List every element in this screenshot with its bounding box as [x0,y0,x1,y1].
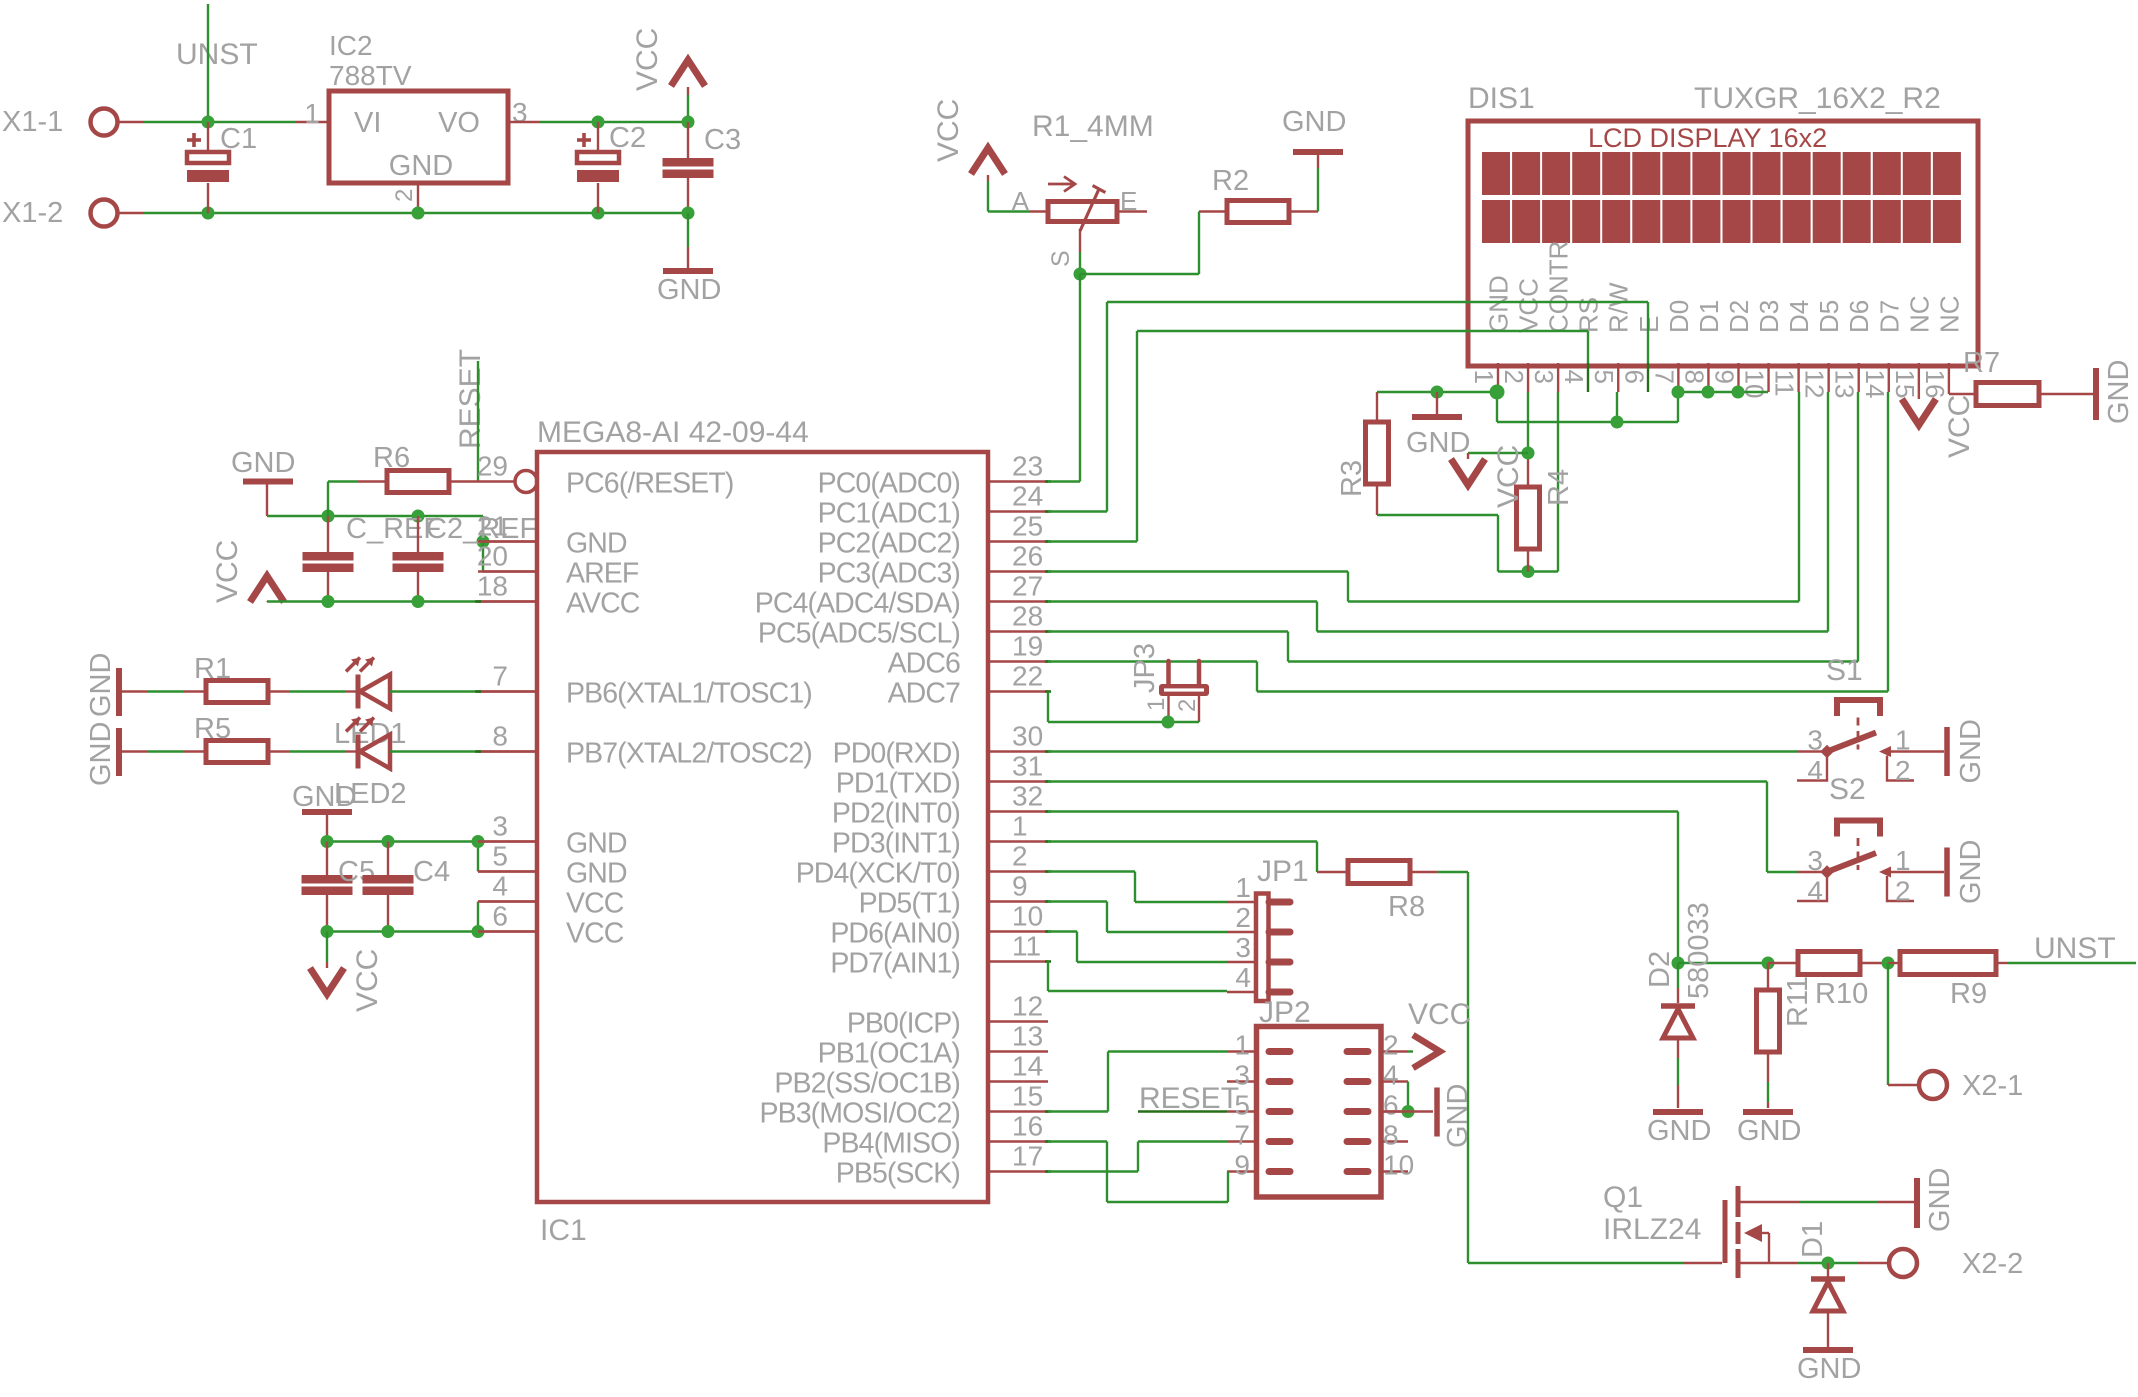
svg-text:9: 9 [1709,370,1739,384]
wire VCC to potentiometer A [988,210,1030,212]
switch S1 top bracket [1837,700,1880,716]
svg-text:RESET: RESET [1139,1082,1239,1115]
switch S1 pin 4 hook [1797,752,1827,781]
svg-text:20: 20 [477,541,508,572]
junction node contrast [1522,565,1535,578]
wire PC4 net to LCD D5 (pin 12) [1048,600,1317,602]
svg-text:PD6(AIN0): PD6(AIN0) [830,918,960,950]
wire PD0 to switch S1 [1048,750,1797,752]
IC1 left pin stubs [478,540,537,542]
svg-text:VO: VO [438,107,480,139]
capacitor C4 [387,842,389,876]
junction node C5 bottom [321,925,334,938]
wire PC5 net to LCD D6 (pin 13) [1048,630,1288,632]
svg-text:R1_4MM: R1_4MM [1032,110,1154,143]
svg-text:5: 5 [492,841,508,872]
svg-text:PD7(AIN1): PD7(AIN1) [830,948,960,980]
wire PD6 to JP1 pin 3 [1048,930,1077,932]
switch S1 pin 1 contact arrow [1879,746,1891,757]
svg-text:X2-1: X2-1 [1962,1070,2023,1102]
svg-text:C4: C4 [413,856,450,888]
junction node at C3 top [682,116,695,129]
svg-text:7: 7 [492,661,508,692]
svg-text:12: 12 [1012,991,1043,1022]
wire R1 to LED1 [268,690,290,692]
svg-text:VCC: VCC [351,949,384,1012]
wire PD5 to JP1 pin 2 [1048,900,1107,902]
svg-text:9: 9 [1234,1150,1250,1181]
svg-text:C3: C3 [704,124,741,156]
svg-text:PC4(ADC4/SDA): PC4(ADC4/SDA) [755,588,960,620]
LCD pin stubs [1497,363,1499,392]
svg-text:1: 1 [1895,845,1911,876]
wire PB5 to JP2 pin 7 (crossover) [1048,1170,1138,1172]
svg-text:4: 4 [1807,876,1823,907]
wire PC0 net from wiper down to pin 23 [1079,274,1081,482]
ground symbol below D1 [1803,1347,1853,1353]
IC1 pin 29 inversion circle [515,471,537,493]
svg-text:X2-2: X2-2 [1962,1248,2023,1280]
svg-text:GND: GND [292,781,356,813]
LCD character cells row 1 [1482,152,1510,195]
svg-text:A: A [1012,186,1030,216]
wire R5 to LED2 [268,750,290,752]
ground symbol at R5 (rotated) [116,728,122,776]
svg-text:3: 3 [1529,370,1559,384]
svg-text:PB2(SS/OC1B): PB2(SS/OC1B) [774,1068,960,1100]
svg-text:Q1: Q1 [1603,1181,1643,1214]
resistor R3 (contrast divider) [1376,392,1378,422]
svg-text:GND: GND [389,150,453,182]
potentiometer wiper with T-bar [1080,189,1099,231]
junction node C2_REF bottom [412,595,425,608]
transistor Q1 channel dashes [1736,1186,1741,1217]
svg-text:VCC: VCC [566,918,624,950]
svg-text:PC1(ADC1): PC1(ADC1) [818,498,960,530]
wire PD1 to switch S2 [1048,780,1767,782]
svg-text:CONTR: CONTR [1544,241,1574,333]
svg-text:788TV: 788TV [329,60,412,91]
LCD pin 15 stub with VCC down arrow [1918,363,1920,399]
svg-text:GND: GND [85,722,117,786]
svg-text:ADC6: ADC6 [888,648,960,680]
svg-text:R4: R4 [1543,469,1575,506]
switch S2 pin 1 contact arrow [1879,867,1891,878]
svg-text:9: 9 [1012,871,1028,902]
svg-text:4: 4 [1559,370,1589,384]
resistor R9 [1888,962,1900,964]
svg-text:VCC: VCC [1514,278,1544,333]
switch S2 lever [1827,853,1876,872]
svg-text:GND: GND [657,274,721,306]
svg-text:GND: GND [566,828,627,860]
junction node C_REF top [322,510,335,523]
svg-text:12: 12 [1800,370,1830,399]
wire R6 to PC6 pin 29 [478,480,514,482]
wire PC2 net to LCD RS (pin 4) [1048,540,1137,542]
svg-text:R2: R2 [1212,165,1249,197]
capacitor C_REF [327,516,329,552]
wire GND stub down to AREF cap rail [266,482,268,517]
svg-text:VCC: VCC [211,540,244,603]
ground symbol at R1 (rotated) [116,668,122,716]
svg-text:GND: GND [2103,360,2135,424]
wire UNST vertical [207,4,209,122]
svg-text:TUXGR_16X2_R2: TUXGR_16X2_R2 [1694,82,1941,115]
svg-text:D1: D1 [1694,300,1724,333]
junction node at C3 bottom [682,207,695,220]
switch S2 pin 3 [1797,871,1827,873]
switch S1 actuator dashed link [1857,718,1860,750]
wire LCD CONTR (pin 3) down [1557,392,1559,572]
svg-text:D4: D4 [1784,300,1814,333]
svg-text:24: 24 [1012,481,1043,512]
wire node to X2-1 [1887,963,1889,1085]
svg-text:R6: R6 [373,442,410,474]
capacitor C2_REF [417,516,419,552]
svg-text:S1: S1 [1826,654,1863,687]
svg-text:32: 32 [1012,781,1043,812]
svg-text:GND: GND [566,528,627,560]
svg-text:GND: GND [1955,719,1987,783]
LCD pin 16 stub to R7 [1948,363,1950,394]
resistor R6 [328,480,358,482]
svg-text:R8: R8 [1388,891,1425,923]
transistor Q1 gate [1723,1200,1728,1263]
svg-text:1: 1 [1143,698,1170,711]
svg-text:PB4(MISO): PB4(MISO) [822,1128,960,1160]
svg-text:13: 13 [1830,370,1860,399]
svg-text:2: 2 [1895,755,1911,786]
svg-text:6: 6 [1383,1090,1399,1121]
svg-text:2: 2 [1895,876,1911,907]
wire D2 node to R10 [1678,962,1768,964]
svg-text:19: 19 [1012,631,1043,662]
svg-text:VCC: VCC [932,99,965,162]
svg-text:1: 1 [304,98,320,129]
svg-text:8: 8 [1679,370,1709,384]
svg-text:NC: NC [1934,295,1964,333]
svg-text:4: 4 [492,871,508,902]
resistor R4 [1527,453,1529,487]
svg-text:PC3(ADC3): PC3(ADC3) [818,558,960,590]
JP2 right pins [1379,1050,1408,1052]
wire LED2 to PB7 pin 8 [390,750,478,752]
svg-text:11: 11 [1770,370,1800,397]
junction node at R11 top [1762,957,1775,970]
svg-text:26: 26 [1012,541,1043,572]
IC1 right pin stubs [988,480,1048,482]
svg-text:VCC: VCC [1408,998,1471,1031]
svg-text:GND: GND [231,447,295,479]
svg-text:10: 10 [1383,1150,1414,1181]
junction node C4 top [382,835,395,848]
svg-text:4: 4 [1383,1060,1399,1091]
resistor R8 [1317,871,1348,873]
ground symbol at S2 [1944,848,1950,897]
junction node at C1 bottom [202,207,215,220]
wire IC2 VO to VCC node [508,121,540,123]
svg-text:3: 3 [1235,932,1251,963]
LED LED2 [356,735,361,769]
ground symbol below D2 [1653,1109,1703,1115]
wire RESET to JP2 pin 5 [1138,1110,1227,1112]
wire ADC7 to JP3 [1047,692,1049,723]
svg-text:D6: D6 [1844,300,1874,333]
transistor Q1 source wire to X2-2 [1740,1262,1797,1264]
junction node LCD pin 1 [1490,385,1505,400]
svg-text:17: 17 [1012,1141,1043,1172]
ground symbol below C3 [663,268,713,274]
svg-text:15: 15 [1890,370,1920,399]
svg-text:PD2(INT0): PD2(INT0) [832,798,960,830]
svg-text:GND: GND [1924,1168,1956,1232]
svg-text:1: 1 [1469,370,1499,384]
junction node C2_REF top [412,510,425,523]
svg-text:JP1: JP1 [1257,855,1309,888]
wire RESET vertical to pin 29 [477,361,479,482]
wire-pin junction ticks (right) [1045,480,1051,483]
resistor R10 [1768,962,1798,964]
ground symbol at JP2 pin 6 [1407,1082,1409,1112]
svg-text:2: 2 [1012,841,1028,872]
wire PC1 net to LCD E (pin 6) [1048,510,1107,512]
svg-text:14: 14 [1012,1051,1043,1082]
svg-text:GND: GND [1647,1115,1711,1147]
wire PD4 to JP1 pin 1 [1048,870,1135,872]
wire C5/C4 bottom rail to VCC pins 4 and 6 [327,930,478,932]
microcontroller IC1 MEGA8-AI body [537,452,988,1202]
LED LED1 [356,675,361,709]
svg-text:PB0(ICP): PB0(ICP) [847,1008,960,1040]
ground symbol at Q1 drain (rotated) [1914,1178,1920,1228]
svg-text:16: 16 [1012,1111,1043,1142]
svg-text:GND: GND [566,858,627,890]
svg-text:21: 21 [477,511,508,542]
svg-text:PD5(T1): PD5(T1) [859,888,960,920]
svg-text:GND: GND [1797,1353,1861,1385]
svg-text:PC6(/RESET): PC6(/RESET) [566,468,733,500]
wire to VCC arrow below [326,932,328,963]
svg-text:AREF: AREF [566,558,639,590]
svg-text:PD0(RXD): PD0(RXD) [833,738,960,770]
svg-text:DIS1: DIS1 [1468,82,1535,115]
ground symbol at S1 [1944,727,1950,776]
power symbol VCC (top) [671,60,705,86]
resistor R11 [1767,963,1769,990]
junction node at C2 bottom [592,207,605,220]
svg-text:D2: D2 [1724,300,1754,333]
wire C3 bottom to ground [687,213,689,247]
svg-text:PC5(ADC5/SCL): PC5(ADC5/SCL) [758,618,960,650]
svg-text:C2: C2 [609,122,646,154]
svg-text:C1: C1 [220,123,257,155]
resistor R2 [1199,210,1227,212]
svg-text:NC: NC [1904,295,1934,333]
connector pad X2-2 [1889,1249,1917,1277]
svg-text:GND: GND [1955,840,1987,904]
svg-text:R9: R9 [1950,978,1987,1010]
ground symbol below R11 [1743,1109,1793,1115]
wire X1-1 to IC2 VI [118,121,144,123]
svg-text:8: 8 [492,721,508,752]
connector pad X1-1 [91,109,118,136]
wire AREF cap top rail [267,515,483,517]
wire GND to R5 [122,750,148,752]
svg-text:D3: D3 [1754,300,1784,333]
junction nodes LCD pins 7-9 [1672,386,1685,399]
switch S2 pin 2 hook [1887,876,1914,901]
svg-text:5: 5 [1589,370,1619,384]
svg-text:D5: D5 [1814,300,1844,333]
svg-text:15: 15 [1012,1081,1043,1112]
wire to IC AREF pin 20 [482,542,484,572]
svg-text:1: 1 [1235,872,1251,903]
svg-text:3: 3 [1807,725,1823,756]
svg-text:R11: R11 [1782,976,1814,1027]
svg-text:S2: S2 [1829,773,1866,806]
svg-text:VCC: VCC [1492,445,1525,508]
svg-text:S: S [1047,250,1075,267]
ground symbol left of R6 [243,479,293,485]
svg-text:580033: 580033 [1683,902,1715,999]
wire X1-2 ground rail [118,212,144,214]
capacitor C5 [326,842,328,876]
junction node at D2 [1672,957,1685,970]
svg-text:18: 18 [477,571,508,602]
potentiometer E stub [1117,210,1147,212]
svg-text:22: 22 [1012,661,1043,692]
svg-text:2: 2 [1499,370,1529,384]
svg-text:R7: R7 [1963,347,2000,379]
ground symbol above R2 [1293,149,1343,155]
wire R9 to UNST [2008,962,2136,964]
svg-text:28: 28 [1012,601,1043,632]
svg-text:30: 30 [1012,721,1043,752]
svg-text:6: 6 [492,901,508,932]
svg-text:2: 2 [1383,1030,1399,1061]
wire R3 bottom to contrast node [1377,514,1498,516]
svg-text:LCD DISPLAY 16x2: LCD DISPLAY 16x2 [1588,123,1827,153]
switch S1 pin 2 hook [1887,756,1914,781]
junction node at wiper S [1074,268,1087,281]
svg-text:D0: D0 [1664,300,1694,333]
svg-text:PD3(INT1): PD3(INT1) [832,828,960,860]
svg-text:31: 31 [1012,751,1043,782]
junction node at GND stub [1431,386,1444,399]
junction node at IC2 pin 2 [412,207,425,220]
wire PB3 to JP2 pin 1 [1048,1110,1108,1112]
svg-text:1: 1 [1234,1030,1250,1061]
wire R2 to GND [1317,168,1319,212]
svg-text:UNST: UNST [2034,932,2116,965]
junction node at JP3 pin 1 [1162,716,1175,729]
svg-text:3: 3 [492,811,508,842]
switch S2 pin 4 hook [1797,872,1827,901]
svg-text:ADC7: ADC7 [888,678,960,710]
svg-text:27: 27 [1012,571,1043,602]
svg-text:RESET: RESET [454,349,487,449]
ground symbol right of R7 (rotated) [2093,368,2099,420]
wire PD3 to R8 [1048,840,1317,842]
wire LCD VCC (pin 2) to R4 top [1527,392,1529,453]
svg-text:MEGA8-AI 42-09-44: MEGA8-AI 42-09-44 [537,416,809,449]
junction node at pin 6 [472,925,485,938]
switch S2 actuator dashed link [1857,838,1860,870]
wire LCD ground bus (pins 1,5,7,8,9,10) [1377,391,1497,393]
wire C5/C4 top rail to GND pins 3 and 5 [327,840,478,842]
svg-text:VCC: VCC [566,888,624,920]
wire R8 to Q1 gate (long) [1437,871,1468,873]
svg-text:8: 8 [1383,1120,1399,1151]
svg-text:2: 2 [391,189,418,202]
svg-text:UNST: UNST [176,38,258,71]
svg-text:11: 11 [1012,931,1041,962]
svg-text:4: 4 [1807,755,1823,786]
ground symbol below LCD pin bus [1436,392,1438,414]
svg-text:23: 23 [1012,451,1043,482]
switch S1 pin 3 [1797,750,1827,752]
svg-text:PB5(SCK): PB5(SCK) [836,1158,960,1190]
svg-text:X1-1: X1-1 [2,106,63,138]
svg-text:PB1(OC1A): PB1(OC1A) [818,1038,960,1070]
svg-text:VI: VI [354,107,381,139]
svg-text:10: 10 [1012,901,1043,932]
junction node at D1 [1822,1257,1835,1270]
svg-text:PB7(XTAL2/TOSC2): PB7(XTAL2/TOSC2) [566,738,812,770]
LCD module DIS1 TUXGR_16X2_R2 body [1468,121,1978,366]
svg-text:4: 4 [1235,962,1251,993]
svg-text:16: 16 [1920,370,1950,399]
svg-text:PD4(XCK/T0): PD4(XCK/T0) [796,858,960,890]
wire PD7 to JP1 pin 4 [1047,962,1049,992]
svg-text:JP3: JP3 [1129,643,1161,693]
connector pad X2-1 [1919,1071,1947,1099]
wire-pin junction ticks (left) [475,600,481,603]
JP2 left pins [1227,1050,1258,1052]
svg-text:GND: GND [1406,427,1470,459]
junction node C4 bottom [382,925,395,938]
ground symbol above C5 [302,809,352,815]
wire AVCC rail to pin 18 [267,600,483,602]
svg-text:14: 14 [1860,370,1890,399]
svg-text:6: 6 [1619,370,1649,384]
svg-text:R/W: R/W [1604,282,1634,333]
junction node C_REF bottom [322,595,335,608]
svg-text:7: 7 [1649,370,1679,384]
svg-text:PB6(XTAL1/TOSC1): PB6(XTAL1/TOSC1) [566,678,812,710]
svg-text:GND: GND [1442,1084,1474,1148]
IC2 pin 2 stub to ground rail [417,183,419,213]
LCD character cells row 2 [1482,200,1510,243]
switch S2 top bracket [1837,821,1880,837]
capacitor C2 [597,122,599,152]
svg-text:IRLZ24: IRLZ24 [1603,1213,1701,1246]
svg-text:3: 3 [512,97,528,128]
svg-text:13: 13 [1012,1021,1043,1052]
svg-text:PC0(ADC0): PC0(ADC0) [818,468,960,500]
junction node R10/R9 [1882,957,1895,970]
svg-text:2: 2 [1174,699,1201,712]
wire GND to C5 rail [326,812,328,842]
wire ADC6 net to LCD D7 (pin 14) [1048,660,1257,662]
voltage regulator IC2 788TV body [329,91,508,183]
svg-text:29: 29 [477,451,508,482]
junction node at C1 top [202,116,215,129]
resistor R7 [1949,393,1976,395]
wire GND to R1 [122,690,148,692]
wire PC3 net to LCD D4 (pin 11) [1048,570,1348,572]
